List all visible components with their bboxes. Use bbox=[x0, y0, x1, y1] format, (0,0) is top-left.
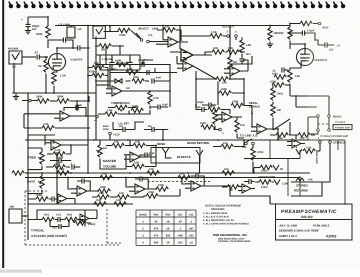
op-amp U4 bbox=[230, 66, 240, 76]
capacitor C16 6.8uF bbox=[209, 103, 211, 108]
svg-text:10K: 10K bbox=[134, 162, 139, 165]
svg-text:O.X.: O.X. bbox=[242, 146, 247, 149]
wire mono feed bbox=[290, 96, 329, 115]
svg-text:63V: 63V bbox=[32, 28, 37, 31]
gain network box bbox=[100, 55, 140, 70]
svg-text:HI GAIN: HI GAIN bbox=[8, 48, 18, 51]
svg-text:¼: ¼ bbox=[222, 132, 225, 135]
svg-text:400K: 400K bbox=[221, 88, 227, 91]
svg-text:100K: 100K bbox=[36, 32, 43, 36]
feedback loop box bbox=[110, 65, 170, 97]
resistor R42 2.2K bbox=[57, 171, 69, 175]
wire xo verticals bbox=[254, 150, 300, 196]
svg-text:10µF: 10µF bbox=[195, 106, 201, 109]
wire send jack stem bbox=[166, 157, 172, 159]
wire left bus bbox=[27, 93, 29, 191]
switch SW2 bbox=[245, 142, 248, 145]
wire J1 to C3 bbox=[22, 56, 36, 58]
wire compressor verticals bbox=[96, 55, 170, 130]
svg-text:P R E A M P S C H E M A T I: P R E A M P S C H E M A T I C bbox=[281, 209, 337, 215]
resistor R44 10K bbox=[222, 171, 234, 175]
svg-text:10K: 10K bbox=[149, 168, 154, 171]
terminal XLR pin3 bbox=[235, 35, 238, 38]
tube V2 triode bbox=[297, 49, 314, 66]
svg-text:33K: 33K bbox=[277, 109, 282, 112]
wire eq cell links bbox=[28, 191, 97, 240]
wire U3 out bbox=[193, 52, 212, 55]
svg-text:1M: 1M bbox=[126, 87, 130, 90]
resistor R51 10K bbox=[114, 202, 126, 206]
svg-text:EFFECTS: EFFECTS bbox=[177, 155, 191, 159]
resistor R7 470K bbox=[118, 28, 130, 32]
jack xo LOW bbox=[274, 180, 280, 185]
resistor R24 180K bbox=[116, 62, 128, 66]
ground bus lower-left bbox=[12, 92, 96, 94]
resistor R43 10K bbox=[147, 171, 159, 175]
svg-text:820: 820 bbox=[166, 234, 171, 237]
svg-text:2.2K: 2.2K bbox=[55, 149, 61, 152]
resistor R29 22K bbox=[216, 77, 228, 81]
svg-text:CX1: CX1 bbox=[56, 213, 62, 216]
wire eq bus A bbox=[25, 172, 310, 174]
svg-text:.47: .47 bbox=[178, 220, 182, 223]
op-amp U3 bbox=[181, 49, 193, 61]
svg-text:10K: 10K bbox=[300, 137, 305, 140]
svg-text:.022: .022 bbox=[188, 234, 194, 237]
svg-text:1K: 1K bbox=[166, 241, 169, 244]
svg-text:1000: 1000 bbox=[272, 72, 278, 75]
svg-text:1803 Redhill Blvd. Unit F: 1803 Redhill Blvd. Unit F bbox=[218, 237, 245, 240]
svg-text:RX2: RX2 bbox=[67, 213, 73, 216]
op-amp U13 bbox=[292, 139, 301, 148]
svg-text:100Ω: 100Ω bbox=[277, 92, 283, 95]
ground G2 bbox=[13, 96, 19, 99]
wire long mid bus bbox=[25, 139, 345, 141]
capacitor C12 bbox=[147, 70, 149, 75]
resistor R40 2.2K fb bbox=[53, 152, 65, 156]
resistor R16 100K bbox=[288, 27, 292, 39]
dashed box typical eq bbox=[25, 191, 121, 245]
ground G3 bbox=[267, 44, 273, 47]
op-amp U7 bbox=[222, 112, 232, 122]
resistor R32 33K bbox=[213, 112, 217, 124]
pot P2 master 1M bbox=[98, 145, 102, 157]
wire C1 top to R1 bbox=[28, 16, 48, 18]
wire x254 effects bbox=[244, 158, 248, 160]
svg-text:10K: 10K bbox=[114, 141, 119, 144]
svg-text:1K: 1K bbox=[166, 227, 169, 230]
svg-text:330K: 330K bbox=[133, 76, 139, 79]
svg-text:10K: 10K bbox=[102, 173, 107, 176]
svg-text:+: + bbox=[21, 18, 23, 22]
svg-text:100Ω: 100Ω bbox=[261, 186, 267, 189]
svg-text:#1005: #1005 bbox=[326, 234, 337, 238]
svg-text:3: 3 bbox=[235, 30, 237, 33]
svg-text:22K: 22K bbox=[222, 81, 227, 84]
resistor R34 10K bbox=[235, 120, 239, 132]
resistor R4 240K bbox=[37, 99, 49, 103]
resistor R1 100K plate load bbox=[46, 26, 50, 38]
svg-text:10K: 10K bbox=[119, 192, 124, 195]
resistor R54 4.7K bbox=[303, 149, 315, 153]
resistor R22 68K bbox=[92, 65, 104, 69]
svg-text:2: 2 bbox=[227, 30, 229, 33]
capacitor C10 .22 bbox=[282, 68, 284, 73]
capacitor C14 1M bbox=[123, 127, 125, 132]
resistor R31 270K bbox=[231, 103, 243, 107]
svg-text:DESIGNED & DWN: D.W. REBE: DESIGNED & DWN: D.W. REBE bbox=[279, 230, 319, 233]
capacitor CX2 bbox=[59, 224, 61, 229]
svg-text:IN: IN bbox=[280, 168, 283, 171]
svg-text:28K: 28K bbox=[10, 206, 15, 209]
resistor R49 380K bbox=[74, 221, 86, 225]
resistor R23 470K bbox=[92, 73, 104, 77]
svg-text:100K: 100K bbox=[200, 122, 206, 125]
capacitor C23 fb bbox=[196, 174, 198, 179]
jack J2 line bbox=[93, 26, 105, 38]
svg-text:10K: 10K bbox=[213, 47, 218, 50]
resistor R3 1.5K cathode bbox=[52, 72, 56, 84]
wire U1 output bbox=[70, 115, 96, 117]
svg-text:100K: 100K bbox=[277, 31, 284, 35]
wire tone links bbox=[28, 135, 45, 194]
svg-text:180K: 180K bbox=[57, 95, 64, 99]
svg-text:1M: 1M bbox=[119, 125, 122, 128]
capacitor C8 100pF bbox=[302, 31, 304, 36]
svg-text:2.2K: 2.2K bbox=[59, 168, 65, 171]
svg-text:RX2: RX2 bbox=[166, 213, 171, 216]
svg-text:SELECT: SELECT bbox=[138, 28, 149, 31]
svg-text:1M: 1M bbox=[165, 25, 169, 28]
svg-text:1K: 1K bbox=[154, 220, 157, 223]
svg-text:100K: 100K bbox=[148, 191, 154, 194]
diagonal wire pedal bbox=[273, 119, 290, 130]
capacitor C7 66.7 bbox=[240, 59, 245, 61]
resistor R38 10K bbox=[133, 143, 145, 147]
resistor R11 10K bbox=[227, 50, 239, 54]
svg-text:THRESHOLD: THRESHOLD bbox=[111, 101, 131, 105]
wire eq out right bbox=[212, 186, 277, 204]
wire box to left bbox=[96, 84, 110, 86]
switch SW3 line xo bbox=[248, 158, 300, 160]
svg-text:100K: 100K bbox=[270, 80, 276, 83]
svg-text:4.7K: 4.7K bbox=[153, 97, 159, 100]
svg-text:4: 4 bbox=[142, 241, 144, 244]
resistor R15 supply bbox=[300, 21, 312, 25]
svg-text:10K: 10K bbox=[99, 192, 104, 195]
wire U5 out bbox=[122, 90, 170, 92]
wire balance links bbox=[290, 122, 320, 151]
effects loop box bbox=[151, 148, 200, 164]
resistor R12 1.5K xlr bbox=[210, 34, 222, 38]
svg-text:10K: 10K bbox=[240, 124, 245, 127]
capacitor C17 10uF bbox=[202, 107, 204, 112]
svg-text:VOLUME: VOLUME bbox=[103, 164, 116, 168]
svg-text:ORANGE, CALIFORNIA 92543: ORANGE, CALIFORNIA 92543 bbox=[218, 240, 251, 243]
jack J1 HI GAIN bbox=[9, 51, 22, 64]
wire x88 lower bbox=[87, 140, 89, 173]
svg-text:JULY 10, 1989: JULY 10, 1989 bbox=[279, 225, 297, 228]
svg-text:TO 'LINE' X.O.: TO 'LINE' X.O. bbox=[240, 135, 258, 138]
wire U6 out bend bbox=[193, 66, 216, 79]
resistor R39 10K bbox=[132, 164, 144, 168]
svg-text:47K: 47K bbox=[308, 178, 313, 181]
svg-text:10K: 10K bbox=[135, 141, 140, 144]
svg-text:3. ALL RESISTORS ¼W, 5%: 3. ALL RESISTORS ¼W, 5% bbox=[203, 219, 235, 222]
resistor R56 100ohm xo lo bbox=[259, 180, 271, 184]
wire right out leg bbox=[308, 117, 318, 134]
svg-text:1.5K: 1.5K bbox=[246, 44, 252, 47]
svg-text:.47: .47 bbox=[34, 52, 38, 55]
svg-text:10K: 10K bbox=[224, 168, 229, 171]
resistor R58 47K bbox=[296, 178, 304, 181]
resistor R35 470ohm bbox=[251, 148, 255, 160]
terminal +15V bbox=[109, 132, 112, 135]
svg-text:1.4 GAIN: 1.4 GAIN bbox=[102, 58, 113, 61]
svg-text:1M: 1M bbox=[101, 48, 105, 51]
op-amp U14 bbox=[80, 214, 89, 223]
resistor R63 100K bbox=[146, 194, 158, 198]
svg-text:.0047: .0047 bbox=[155, 77, 162, 80]
svg-text:.033: .033 bbox=[177, 241, 183, 244]
svg-text:10K: 10K bbox=[96, 199, 101, 202]
pot P3 TREB bbox=[40, 152, 44, 164]
svg-text:4 PLACES (SEE CHART): 4 PLACES (SEE CHART) bbox=[31, 234, 67, 238]
pot P4 BASS bbox=[40, 176, 44, 188]
title block box bbox=[276, 204, 353, 240]
svg-text:1.5K: 1.5K bbox=[295, 75, 301, 78]
svg-text:PCB# 1900.3: PCB# 1900.3 bbox=[313, 225, 330, 228]
svg-text:1M: 1M bbox=[38, 65, 42, 68]
jack effects ret V bbox=[196, 150, 203, 160]
resistor R59 330K bbox=[132, 79, 144, 83]
op-amp U6 bbox=[183, 61, 193, 71]
op-amp U12 bbox=[191, 181, 201, 191]
wire effects jack stem bbox=[199, 160, 201, 173]
resistor R6 3.3K bbox=[42, 126, 54, 130]
dashed switch link bbox=[318, 123, 329, 125]
resistor R5 180K bbox=[57, 99, 69, 103]
svg-text:RX1: RX1 bbox=[154, 213, 159, 216]
resistor R25 6.2K bbox=[126, 70, 138, 74]
pot P5 balance bbox=[296, 149, 302, 154]
resistor R18 1000 bbox=[274, 75, 286, 79]
svg-text:200K: 200K bbox=[103, 128, 109, 131]
resistor R2 1M grid bbox=[44, 60, 48, 72]
capacitor C5 bbox=[110, 62, 115, 64]
wire mv verticals bbox=[115, 140, 156, 169]
svg-text:.068: .068 bbox=[177, 234, 183, 237]
resistor R20 100ohm bbox=[271, 88, 275, 100]
resistor R26 4.7K bbox=[148, 92, 152, 104]
ground G1 bbox=[25, 31, 31, 34]
svg-text:240K: 240K bbox=[36, 95, 43, 99]
spiral binding holes bbox=[9, 2, 346, 9]
capacitor C1 100uF filter bbox=[26, 24, 31, 26]
op-amp U15 tone bbox=[51, 140, 61, 150]
op-amp U10 bbox=[77, 186, 87, 196]
svg-text:470Ω: 470Ω bbox=[257, 151, 263, 154]
terminal stereo bbox=[329, 141, 332, 144]
resistor R53 10K bbox=[298, 133, 310, 137]
box eq pot 28K bbox=[9, 209, 22, 223]
svg-text:.01: .01 bbox=[189, 241, 193, 244]
op-amp U8 bbox=[257, 124, 267, 134]
pot P1 threshold bbox=[115, 105, 127, 109]
eq cell row2 bbox=[42, 217, 54, 221]
resistor R55 100ohm xo hi bbox=[260, 165, 272, 169]
op-amp U11 bbox=[135, 184, 145, 194]
wire R4-R5 bbox=[50, 100, 57, 102]
wire ch2 down legs bbox=[88, 26, 120, 141]
switch SW1 select line bbox=[140, 39, 143, 42]
wire eq bus B bbox=[25, 177, 300, 179]
svg-text:100Ω: 100Ω bbox=[261, 169, 267, 172]
stereo returns box bbox=[291, 182, 322, 196]
op-amp U2 bbox=[168, 37, 178, 47]
capacitor C13 10uF bbox=[158, 105, 160, 110]
capacitor C9 out bbox=[325, 43, 327, 48]
terminal left out bbox=[317, 129, 320, 132]
svg-text:11K: 11K bbox=[223, 142, 228, 145]
svg-text:10µF: 10µF bbox=[162, 103, 168, 106]
wire right spine bbox=[270, 134, 345, 205]
resistor R64 1M bbox=[228, 57, 232, 69]
svg-text:11K: 11K bbox=[210, 105, 215, 108]
resistor R13 1.5K bbox=[240, 40, 244, 52]
resistor R47 380K bbox=[98, 189, 110, 193]
resistor R33 100K bbox=[201, 125, 213, 129]
svg-text:6.2K: 6.2K bbox=[127, 68, 133, 71]
wire R5 to U1 bbox=[70, 96, 89, 111]
resistor R46 10K bbox=[100, 175, 112, 179]
jack xo IN bbox=[273, 165, 279, 170]
svg-text:1: 1 bbox=[142, 220, 144, 223]
resistor R36 11K bbox=[221, 144, 233, 148]
svg-text:BNR ENGINEERING, INC.: BNR ENGINEERING, INC. bbox=[213, 233, 248, 237]
svg-text:BALANCE: BALANCE bbox=[315, 152, 318, 164]
svg-text:1. ALL DIODES IN914.: 1. ALL DIODES IN914. bbox=[203, 212, 228, 215]
svg-text:3.3K: 3.3K bbox=[43, 123, 49, 126]
svg-text:2. ALL IC'S TL072 ACP.: 2. ALL IC'S TL072 ACP. bbox=[202, 215, 229, 218]
svg-text:390K: 390K bbox=[36, 194, 42, 197]
svg-text:2: 2 bbox=[142, 227, 144, 230]
svg-text:33K: 33K bbox=[218, 117, 223, 120]
svg-text:ENABLE: ENABLE bbox=[249, 105, 260, 108]
capacitor C4 10uF feedback bbox=[76, 105, 78, 110]
svg-text:1.5K: 1.5K bbox=[60, 74, 66, 78]
resistor R60 400K bbox=[219, 91, 231, 95]
svg-text:680: 680 bbox=[154, 241, 159, 244]
svg-text:CROSSOVER: CROSSOVER bbox=[258, 176, 275, 179]
resistor R28 30pF bbox=[131, 108, 143, 112]
resistor R21 33K bbox=[271, 104, 275, 116]
svg-text:6.8µF: 6.8µF bbox=[197, 101, 204, 104]
svg-text:30pF: 30pF bbox=[133, 106, 139, 109]
svg-text:470: 470 bbox=[154, 227, 159, 230]
tube V1 triode bbox=[49, 54, 66, 71]
svg-text:RX1: RX1 bbox=[44, 213, 50, 216]
svg-text:3: 3 bbox=[142, 234, 144, 237]
svg-text:.1: .1 bbox=[179, 227, 182, 230]
svg-text:SEND: SEND bbox=[157, 142, 166, 146]
wire fx verticals bbox=[196, 56, 278, 147]
svg-text:CX1: CX1 bbox=[178, 213, 183, 216]
terminal mono tip bbox=[317, 115, 320, 118]
svg-text:1K: 1K bbox=[166, 220, 169, 223]
resistor R27 1.5K bbox=[105, 112, 117, 116]
eq cell row1 bbox=[36, 197, 48, 201]
svg-text:10K: 10K bbox=[116, 199, 121, 202]
resistor R19 100K bbox=[272, 83, 284, 87]
scanner smudge bottom-left bbox=[0, 270, 42, 273]
svg-text:10K: 10K bbox=[180, 173, 185, 176]
resistor R52 16K bbox=[276, 133, 288, 137]
svg-text:470K: 470K bbox=[89, 70, 95, 73]
resistor R8 1M bbox=[99, 44, 111, 48]
wire notes step bbox=[230, 196, 270, 204]
wire tone to master bbox=[71, 140, 88, 145]
svg-text:1.5K: 1.5K bbox=[211, 31, 217, 34]
svg-text:RETURNS: RETURNS bbox=[294, 189, 308, 193]
capacitor C19 100pF bbox=[59, 158, 61, 163]
svg-text:1M: 1M bbox=[103, 147, 107, 150]
svg-text:1M: 1M bbox=[229, 189, 233, 192]
svg-text:SHEET 1 OF 2: SHEET 1 OF 2 bbox=[279, 235, 297, 238]
svg-text:1.5K: 1.5K bbox=[107, 109, 113, 112]
resistor R41 2.2K bbox=[53, 165, 65, 169]
svg-text:O.X.: O.X. bbox=[148, 34, 153, 37]
svg-text:¼W: ¼W bbox=[77, 28, 82, 31]
wire U3 input bbox=[170, 26, 205, 53]
resistor R17 1.5K cathode bbox=[288, 70, 292, 82]
dashed lead line bbox=[148, 181, 212, 183]
capacitor C18 bbox=[145, 153, 147, 158]
svg-text:470: 470 bbox=[154, 234, 159, 237]
resistor R37 10K bbox=[112, 143, 124, 147]
svg-text:4. ALL CAPACITORS IN MICRO-FAR: 4. ALL CAPACITORS IN MICRO-FARADS bbox=[202, 223, 249, 226]
terminal XLR pin2 bbox=[227, 35, 230, 38]
op-amp U9 bbox=[130, 152, 140, 162]
svg-text:66.7: 66.7 bbox=[246, 53, 252, 56]
svg-text:270K: 270K bbox=[232, 100, 238, 103]
wire tone down bus bbox=[56, 152, 58, 204]
svg-text:BAND: BAND bbox=[139, 213, 146, 216]
page left edge dark line bbox=[2, 0, 4, 268]
resistor R57 1M bbox=[227, 185, 239, 189]
svg-text:.047: .047 bbox=[188, 227, 194, 230]
svg-text:6: 6 bbox=[296, 146, 298, 149]
wire x96 lower bbox=[95, 93, 97, 140]
terminal bal A bbox=[319, 141, 322, 144]
wire J1 ground leg bbox=[13, 63, 15, 93]
resistor R14 1M to gnd bbox=[268, 28, 272, 40]
svg-text:380K: 380K bbox=[100, 186, 106, 189]
capacitor C11 180pF bbox=[142, 62, 144, 67]
capacitor C22 fb bbox=[140, 177, 142, 182]
resistor R50 10K bbox=[94, 202, 106, 206]
svg-text:L.P. GAIN: L.P. GAIN bbox=[58, 24, 70, 27]
resistor R61 10K bbox=[97, 195, 109, 199]
svg-text:470K: 470K bbox=[119, 33, 126, 37]
svg-text:MASTER: MASTER bbox=[103, 159, 117, 163]
terminal pedal jack bbox=[219, 128, 222, 131]
svg-text:CX2: CX2 bbox=[189, 213, 194, 216]
svg-text:6800: 6800 bbox=[111, 68, 117, 71]
node input chain bbox=[29, 99, 32, 102]
svg-text:FREQ: FREQ bbox=[88, 223, 95, 226]
svg-text:MONO RETURN: MONO RETURN bbox=[187, 141, 209, 145]
